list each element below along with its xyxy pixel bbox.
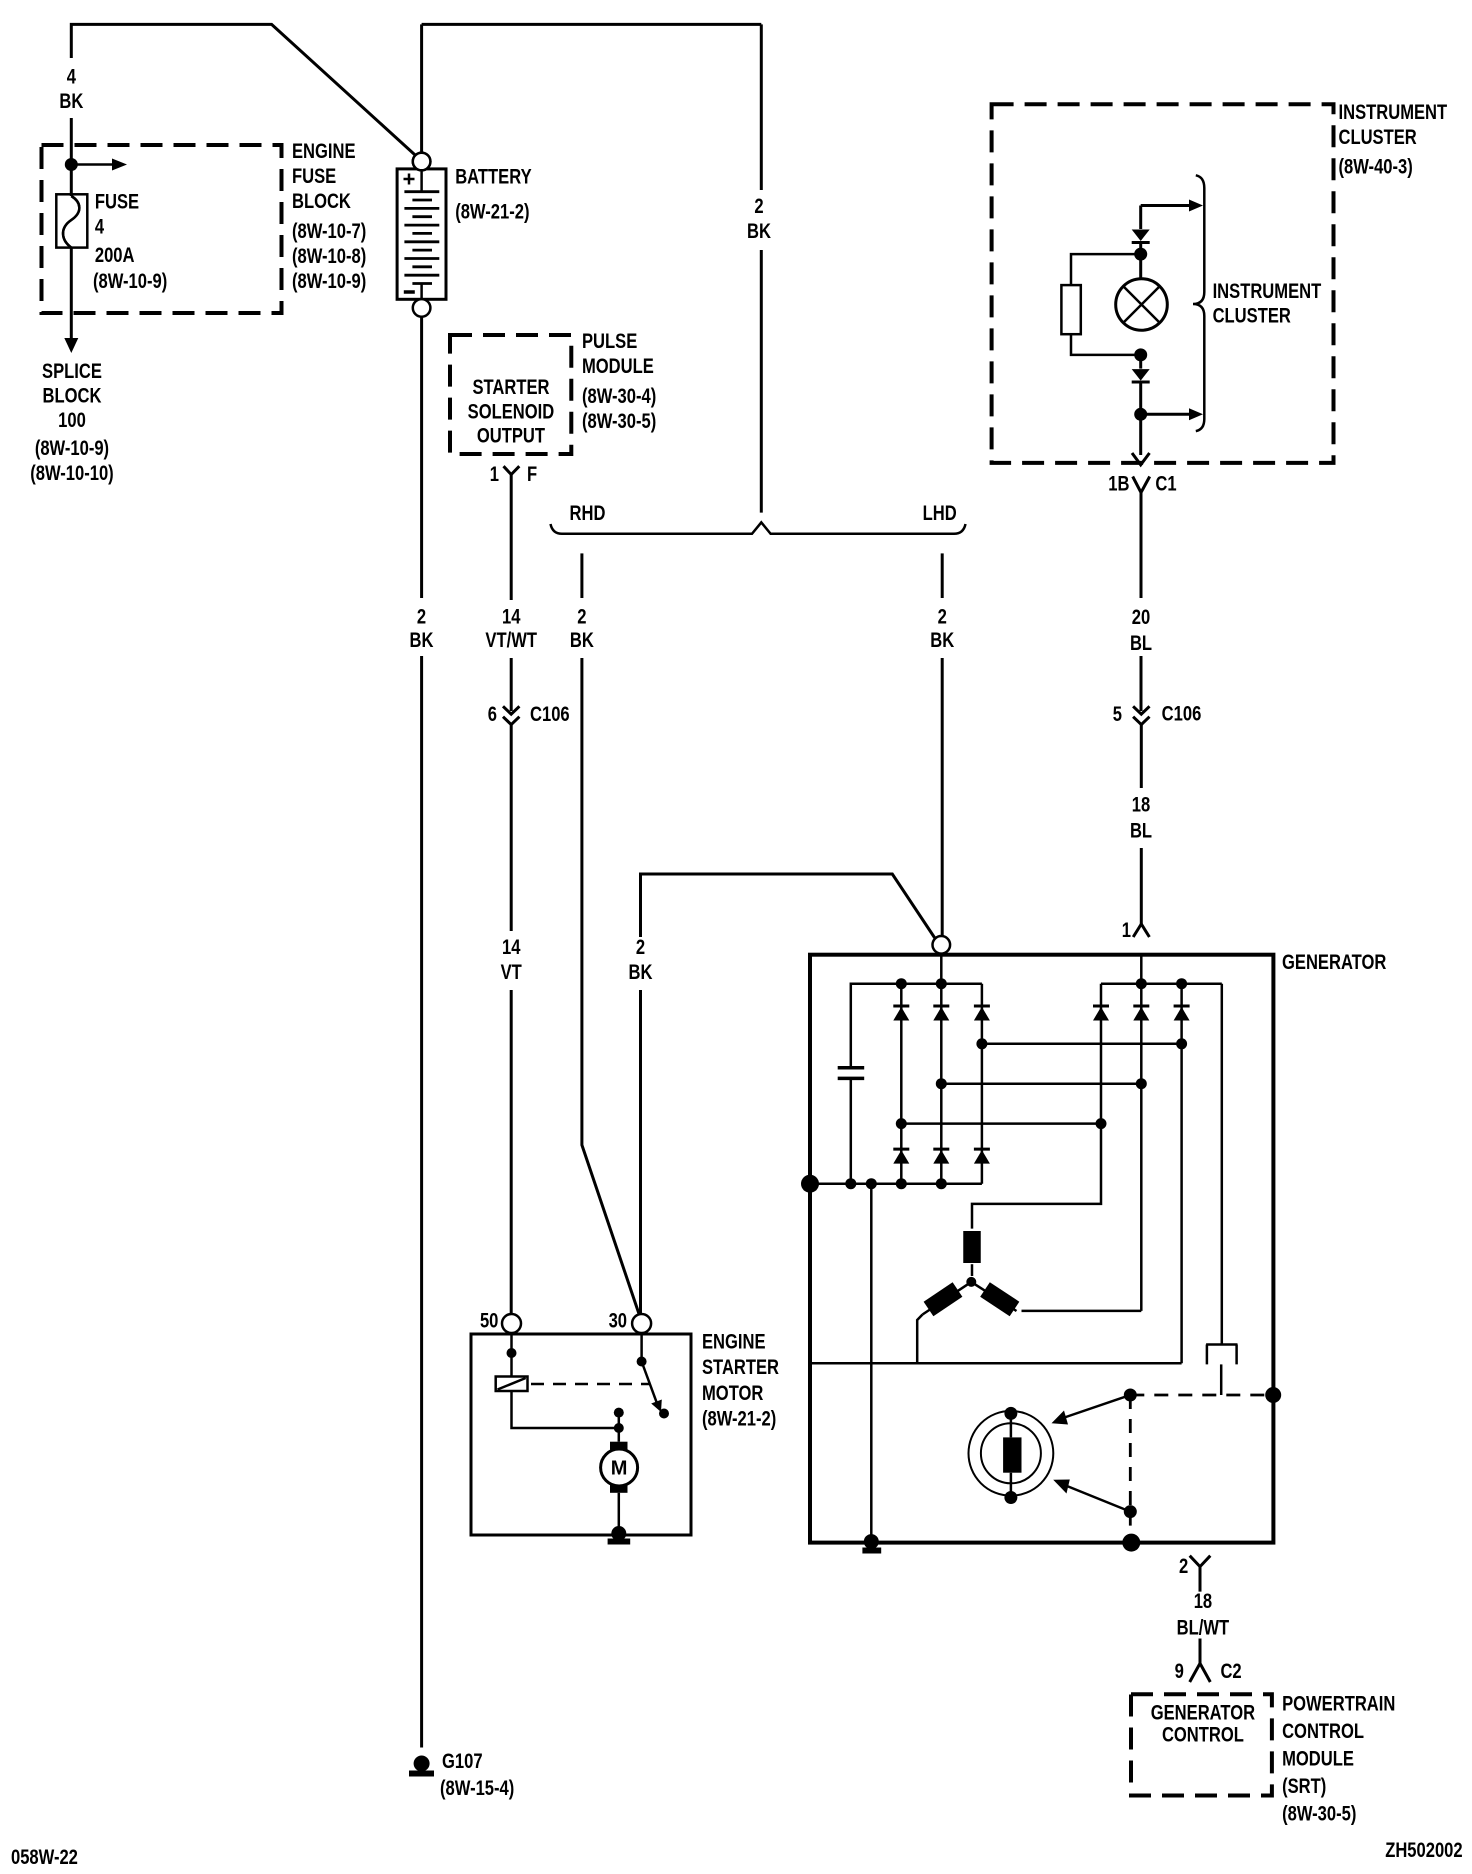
svg-text:STARTER: STARTER — [472, 376, 549, 399]
svg-text:(SRT): (SRT) — [1282, 1775, 1326, 1798]
svg-text:(8W-10-7): (8W-10-7) — [292, 220, 366, 243]
svg-text:C2: C2 — [1220, 1660, 1241, 1683]
svg-text:STARTER: STARTER — [702, 1356, 779, 1379]
svg-text:2: 2 — [577, 606, 586, 629]
svg-text:14: 14 — [502, 606, 521, 629]
svg-text:BK: BK — [747, 220, 771, 243]
svg-text:1: 1 — [1122, 919, 1131, 942]
svg-text:2: 2 — [417, 606, 426, 629]
svg-text:ENGINE: ENGINE — [292, 140, 356, 163]
svg-text:MODULE: MODULE — [1282, 1748, 1354, 1771]
svg-text:CONTROL: CONTROL — [1282, 1720, 1364, 1743]
svg-text:SPLICE: SPLICE — [42, 360, 102, 383]
svg-text:CONTROL: CONTROL — [1162, 1724, 1244, 1747]
svg-text:1: 1 — [490, 463, 499, 486]
svg-text:(8W-40-3): (8W-40-3) — [1338, 156, 1412, 179]
svg-text:GENERATOR: GENERATOR — [1151, 1702, 1256, 1725]
svg-text:BK: BK — [409, 629, 433, 652]
svg-text:MODULE: MODULE — [582, 355, 654, 378]
svg-text:2: 2 — [636, 936, 645, 959]
svg-text:(8W-30-5): (8W-30-5) — [1282, 1803, 1356, 1826]
svg-text:BATTERY: BATTERY — [455, 166, 532, 189]
svg-text:SOLENOID: SOLENOID — [468, 401, 555, 424]
svg-text:INSTRUMENT: INSTRUMENT — [1338, 101, 1447, 124]
svg-text:F: F — [527, 463, 537, 486]
svg-text:(8W-30-4): (8W-30-4) — [582, 385, 656, 408]
svg-text:(8W-21-2): (8W-21-2) — [455, 201, 529, 224]
svg-text:BLOCK: BLOCK — [292, 190, 351, 213]
svg-text:2: 2 — [938, 606, 947, 629]
svg-text:BK: BK — [930, 629, 954, 652]
svg-text:BK: BK — [570, 629, 594, 652]
svg-text:6: 6 — [488, 703, 497, 726]
svg-text:BL/WT: BL/WT — [1177, 1617, 1230, 1640]
svg-text:18: 18 — [1194, 1590, 1212, 1613]
svg-text:VT/WT: VT/WT — [485, 629, 537, 652]
svg-text:FUSE: FUSE — [95, 191, 139, 214]
svg-text:(8W-10-8): (8W-10-8) — [292, 245, 366, 268]
svg-text:1B: 1B — [1108, 473, 1129, 496]
svg-text:50: 50 — [480, 1310, 498, 1333]
svg-text:200A: 200A — [95, 244, 135, 267]
svg-text:18: 18 — [1132, 794, 1150, 817]
svg-text:MOTOR: MOTOR — [702, 1382, 764, 1405]
svg-text:CLUSTER: CLUSTER — [1213, 305, 1292, 328]
svg-text:POWERTRAIN: POWERTRAIN — [1282, 1693, 1395, 1716]
svg-text:BL: BL — [1130, 820, 1152, 843]
svg-text:(8W-10-10): (8W-10-10) — [30, 462, 113, 485]
svg-text:30: 30 — [609, 1310, 627, 1333]
svg-text:BLOCK: BLOCK — [43, 385, 102, 408]
svg-text:OUTPUT: OUTPUT — [477, 425, 546, 448]
svg-text:4: 4 — [67, 66, 77, 89]
svg-text:BK: BK — [629, 961, 653, 984]
svg-text:20: 20 — [1132, 606, 1150, 629]
svg-text:C1: C1 — [1155, 473, 1176, 496]
svg-text:058W-22: 058W-22 — [11, 1846, 78, 1869]
svg-text:9: 9 — [1175, 1660, 1184, 1683]
svg-text:4: 4 — [95, 216, 105, 239]
svg-text:INSTRUMENT: INSTRUMENT — [1213, 280, 1322, 303]
svg-text:GENERATOR: GENERATOR — [1282, 951, 1387, 974]
svg-text:VT: VT — [501, 961, 523, 984]
svg-text:C106: C106 — [530, 703, 570, 726]
svg-text:LHD: LHD — [923, 502, 957, 525]
svg-text:2: 2 — [754, 195, 763, 218]
svg-text:BK: BK — [59, 90, 83, 113]
svg-text:(8W-21-2): (8W-21-2) — [702, 1408, 776, 1431]
svg-text:(8W-10-9): (8W-10-9) — [93, 270, 167, 293]
svg-text:CLUSTER: CLUSTER — [1338, 126, 1417, 149]
svg-text:(8W-15-4): (8W-15-4) — [440, 1777, 514, 1800]
svg-text:(8W-10-9): (8W-10-9) — [35, 437, 109, 460]
svg-text:(8W-30-5): (8W-30-5) — [582, 410, 656, 433]
svg-text:FUSE: FUSE — [292, 165, 336, 188]
svg-text:G107: G107 — [442, 1750, 483, 1773]
svg-text:2: 2 — [1179, 1555, 1188, 1578]
svg-text:RHD: RHD — [570, 502, 606, 525]
svg-text:PULSE: PULSE — [582, 330, 637, 353]
svg-text:100: 100 — [58, 409, 86, 432]
svg-text:M: M — [611, 1458, 628, 1480]
svg-text:C106: C106 — [1162, 703, 1202, 726]
svg-text:ENGINE: ENGINE — [702, 1331, 766, 1354]
svg-text:ZH502002: ZH502002 — [1385, 1839, 1462, 1862]
svg-text:(8W-10-9): (8W-10-9) — [292, 270, 366, 293]
svg-text:5: 5 — [1113, 703, 1122, 726]
svg-text:14: 14 — [502, 936, 521, 959]
svg-text:BL: BL — [1130, 632, 1152, 655]
